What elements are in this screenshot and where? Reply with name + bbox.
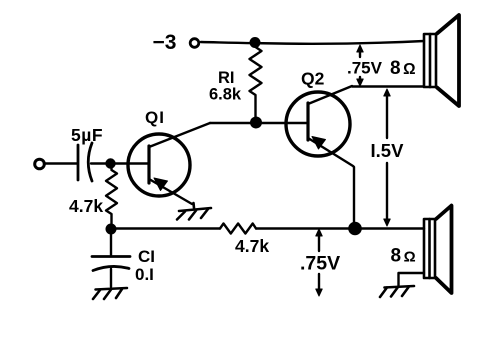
wire node B down to C1	[110, 229, 112, 255]
svg-text:QI: QI	[145, 108, 165, 127]
input terminal	[35, 159, 45, 169]
svg-text:0.I: 0.I	[135, 265, 154, 284]
speaker bottom 8 ohm	[424, 206, 452, 294]
node D (R1 top)	[250, 37, 261, 48]
wire Q1 collector to Q2 base	[210, 122, 308, 124]
ground (Q1 emitter)	[177, 203, 211, 220]
wire bottom rail (node B to 4.7k)	[111, 227, 220, 229]
transistor Q1	[128, 123, 210, 204]
wire top rail	[201, 41, 424, 44]
svg-text:4.7k: 4.7k	[69, 196, 103, 216]
node A (input/base/bias junction)	[105, 158, 115, 168]
svg-text:8Ω: 8Ω	[391, 246, 416, 267]
capacitor C1	[92, 257, 130, 271]
wire C1 to ground	[110, 269, 112, 287]
ground (bottom speaker)	[380, 286, 414, 297]
node E (R1 bottom / collector / base junction)	[250, 117, 262, 129]
wire bottom speaker to ground	[399, 273, 425, 286]
wire node C to bottom speaker	[355, 227, 424, 229]
collector line	[308, 86, 352, 104]
measure arrow .75V (bottom)	[316, 229, 322, 296]
wire input to capacitor	[45, 162, 77, 164]
svg-text:.75V: .75V	[347, 59, 383, 78]
svg-text:6.8k: 6.8k	[209, 86, 242, 104]
transistor Q2	[286, 86, 354, 228]
svg-text:Q2: Q2	[301, 69, 325, 89]
node B (bottom-left junction)	[106, 224, 117, 235]
svg-text:RI: RI	[218, 69, 235, 87]
emitter line	[308, 138, 354, 228]
svg-text:I.5V: I.5V	[371, 140, 405, 161]
collector line	[149, 123, 210, 147]
measure arrow 1.5V	[384, 89, 390, 226]
svg-text:−3: −3	[153, 31, 177, 54]
svg-text:.75V: .75V	[300, 253, 340, 275]
resistor R1 6.8k	[250, 44, 262, 122]
wire capacitor to node A	[91, 162, 110, 164]
resistor 4.7k (horizontal, feedback)	[220, 224, 256, 234]
ground (below C1)	[93, 288, 127, 299]
svg-text:5µF: 5µF	[71, 125, 103, 145]
svg-text:4.7k: 4.7k	[235, 236, 269, 256]
node C (emitter junction)	[348, 222, 362, 236]
wire node A to Q1 base	[111, 162, 149, 164]
wire 4.7k to node C	[256, 227, 355, 229]
measure arrow .75V (top)	[357, 45, 363, 86]
wire Q2 collector to top speaker	[352, 85, 424, 87]
resistor 4.7k (vertical, bias)	[106, 165, 117, 228]
emitter arrow (PNP, pointing to base)	[312, 137, 326, 150]
emitter line	[149, 179, 192, 204]
emitter arrow (PNP, pointing to base)	[154, 178, 168, 191]
svg-text:8Ω: 8Ω	[390, 58, 416, 79]
speaker top 8 ohm	[424, 15, 459, 106]
capacitor 5uF	[78, 143, 92, 181]
svg-text:CI: CI	[138, 247, 155, 266]
